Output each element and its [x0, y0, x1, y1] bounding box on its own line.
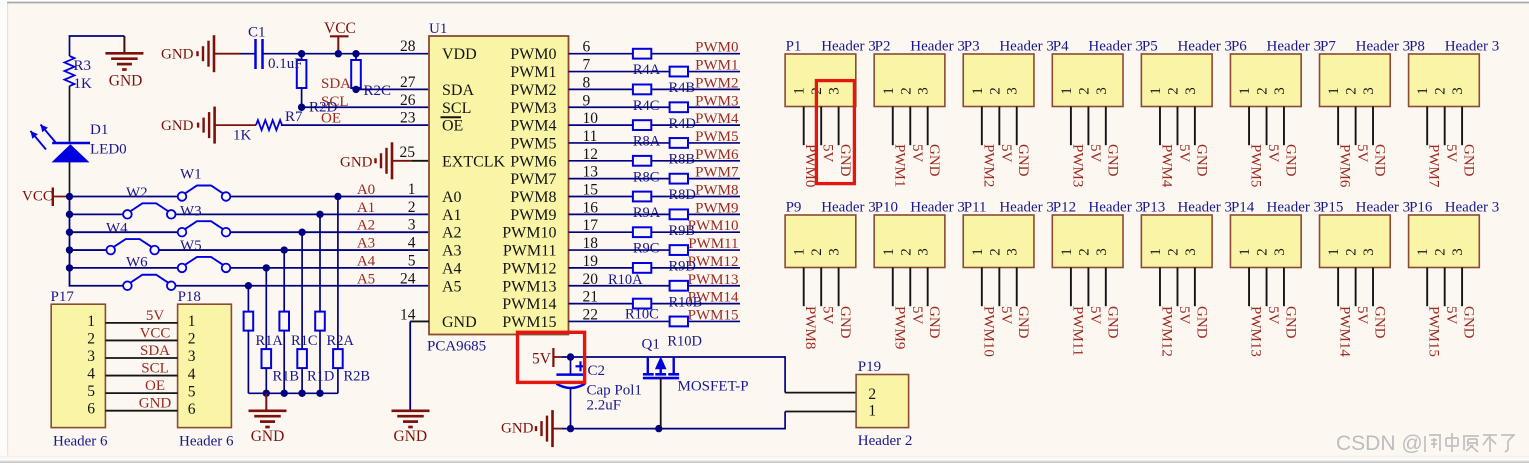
- svg-text:P5: P5: [1142, 39, 1158, 55]
- svg-text:PWM2: PWM2: [695, 75, 738, 91]
- svg-text:W4: W4: [106, 221, 128, 237]
- svg-text:2: 2: [188, 331, 196, 348]
- svg-text:5V: 5V: [909, 144, 925, 163]
- svg-text:21: 21: [583, 289, 599, 306]
- svg-text:Header 2: Header 2: [858, 433, 913, 449]
- svg-text:Header 3: Header 3: [821, 39, 876, 55]
- svg-text:P12: P12: [1053, 200, 1076, 216]
- svg-text:6: 6: [188, 401, 196, 418]
- svg-text:PWM7: PWM7: [1426, 144, 1442, 188]
- svg-text:W3: W3: [180, 204, 202, 220]
- svg-text:R3: R3: [74, 58, 92, 74]
- svg-text:PWM9: PWM9: [510, 207, 556, 224]
- svg-text:5V: 5V: [146, 308, 165, 324]
- svg-text:PWM14: PWM14: [688, 290, 739, 306]
- svg-text:12: 12: [583, 146, 599, 163]
- svg-text:VCC: VCC: [324, 20, 356, 37]
- svg-text:VDD: VDD: [442, 46, 477, 63]
- svg-text:PWM6: PWM6: [510, 153, 556, 170]
- svg-text:3: 3: [916, 87, 932, 95]
- svg-text:2: 2: [1255, 87, 1271, 95]
- svg-text:GND: GND: [340, 155, 373, 171]
- svg-text:5V: 5V: [1354, 306, 1370, 325]
- svg-text:2: 2: [1344, 87, 1360, 95]
- svg-text:Header 3: Header 3: [1088, 200, 1143, 216]
- svg-text:3: 3: [1094, 87, 1110, 95]
- svg-text:PWM14: PWM14: [502, 296, 556, 313]
- svg-text:7: 7: [583, 57, 591, 74]
- svg-text:3: 3: [408, 217, 416, 234]
- svg-text:A3: A3: [357, 236, 375, 252]
- svg-text:PWM1: PWM1: [695, 58, 738, 74]
- svg-text:Header 6: Header 6: [53, 434, 108, 450]
- svg-text:PWM13: PWM13: [502, 278, 556, 295]
- svg-text:R10D: R10D: [667, 334, 702, 350]
- svg-text:26: 26: [400, 92, 416, 109]
- svg-text:PWM4: PWM4: [695, 111, 739, 127]
- svg-text:5V: 5V: [820, 144, 836, 163]
- svg-text:14: 14: [400, 306, 416, 323]
- svg-text:5V: 5V: [1087, 144, 1103, 163]
- svg-text:PWM1: PWM1: [891, 144, 907, 187]
- svg-text:1: 1: [970, 248, 986, 256]
- svg-text:PWM7: PWM7: [695, 165, 739, 181]
- svg-text:3: 3: [1361, 248, 1377, 256]
- svg-text:2: 2: [1433, 87, 1449, 95]
- svg-text:P9: P9: [786, 200, 802, 216]
- svg-text:1: 1: [1415, 87, 1431, 95]
- svg-text:3: 3: [1183, 248, 1199, 256]
- svg-text:5V: 5V: [1265, 144, 1281, 163]
- svg-text:3: 3: [1450, 248, 1466, 256]
- svg-text:PWM14: PWM14: [1337, 306, 1353, 357]
- svg-text:10: 10: [583, 110, 599, 127]
- svg-text:11: 11: [583, 128, 598, 145]
- svg-text:EXTCLK: EXTCLK: [442, 153, 506, 170]
- svg-text:R8C: R8C: [633, 169, 660, 185]
- svg-text:PWM11: PWM11: [1069, 306, 1085, 356]
- svg-text:1: 1: [408, 181, 416, 198]
- svg-text:A2: A2: [442, 225, 462, 242]
- svg-text:D1: D1: [90, 122, 108, 138]
- svg-text:P3: P3: [964, 39, 980, 55]
- svg-text:Header 3: Header 3: [910, 39, 965, 55]
- svg-text:5V: 5V: [1443, 306, 1459, 325]
- svg-text:2: 2: [809, 248, 825, 256]
- svg-text:GND: GND: [442, 314, 477, 331]
- svg-text:GND: GND: [1015, 144, 1031, 177]
- svg-text:5V: 5V: [1354, 144, 1370, 163]
- svg-text:1K: 1K: [74, 76, 93, 92]
- svg-text:GND: GND: [837, 306, 853, 339]
- svg-text:SCL: SCL: [321, 94, 349, 110]
- svg-text:6: 6: [87, 401, 95, 418]
- svg-text:3: 3: [1272, 87, 1288, 95]
- svg-text:1: 1: [970, 87, 986, 95]
- svg-text:VCC: VCC: [22, 189, 53, 205]
- svg-text:PWM15: PWM15: [1426, 306, 1442, 357]
- svg-text:1: 1: [792, 248, 808, 256]
- svg-text:Header 3: Header 3: [1356, 39, 1411, 55]
- svg-text:P7: P7: [1320, 39, 1336, 55]
- svg-text:25: 25: [400, 144, 416, 161]
- svg-text:R1C: R1C: [291, 333, 318, 349]
- svg-text:PWM13: PWM13: [1248, 306, 1264, 357]
- svg-text:P6: P6: [1231, 39, 1247, 55]
- svg-text:GND: GND: [1372, 306, 1388, 339]
- svg-text:1: 1: [1059, 248, 1075, 256]
- svg-text:GND: GND: [1193, 306, 1209, 339]
- svg-text:28: 28: [400, 38, 416, 55]
- svg-text:OE: OE: [442, 118, 463, 135]
- svg-text:Header 3: Header 3: [1177, 200, 1232, 216]
- svg-text:PWM8: PWM8: [510, 189, 556, 206]
- svg-text:PWM5: PWM5: [1248, 144, 1264, 187]
- svg-text:2: 2: [87, 330, 95, 347]
- svg-text:1: 1: [1237, 87, 1253, 95]
- svg-text:SDA: SDA: [140, 343, 170, 359]
- svg-text:1: 1: [868, 403, 876, 420]
- svg-text:5V: 5V: [909, 306, 925, 325]
- svg-text:PWM2: PWM2: [510, 82, 556, 99]
- svg-text:15: 15: [583, 182, 599, 199]
- svg-text:R9C: R9C: [633, 241, 660, 257]
- svg-text:W1: W1: [180, 167, 202, 183]
- svg-text:R9A: R9A: [633, 205, 661, 221]
- svg-text:GND: GND: [109, 72, 143, 89]
- svg-text:PWM11: PWM11: [503, 243, 557, 260]
- svg-text:Header 3: Header 3: [1267, 200, 1322, 216]
- svg-text:PWM9: PWM9: [891, 306, 907, 349]
- svg-text:P19: P19: [858, 359, 881, 375]
- svg-text:4: 4: [408, 235, 416, 252]
- svg-text:W2: W2: [126, 185, 148, 201]
- svg-text:C2: C2: [588, 363, 606, 379]
- svg-text:Header 3: Header 3: [910, 200, 965, 216]
- svg-text:GND: GND: [1104, 144, 1120, 177]
- svg-text:2: 2: [898, 87, 914, 95]
- svg-text:PWM4: PWM4: [510, 118, 556, 135]
- svg-text:5: 5: [87, 383, 95, 400]
- svg-text:R4B: R4B: [669, 80, 696, 96]
- svg-text:P13: P13: [1142, 200, 1165, 216]
- svg-text:PWM10: PWM10: [688, 218, 739, 234]
- svg-text:LED0: LED0: [90, 142, 127, 158]
- svg-text:2: 2: [987, 87, 1003, 95]
- svg-text:Cap Pol1: Cap Pol1: [587, 383, 642, 399]
- svg-text:19: 19: [583, 253, 599, 270]
- svg-text:3: 3: [916, 248, 932, 256]
- svg-text:23: 23: [400, 110, 416, 127]
- svg-text:6: 6: [583, 39, 591, 56]
- svg-text:P14: P14: [1231, 200, 1255, 216]
- svg-text:PWM10: PWM10: [502, 225, 556, 242]
- svg-text:GND: GND: [501, 420, 534, 436]
- svg-text:3: 3: [827, 248, 843, 256]
- svg-text:R2A: R2A: [327, 333, 355, 349]
- svg-text:R1D: R1D: [307, 369, 334, 385]
- svg-text:PWM4: PWM4: [1158, 144, 1174, 188]
- svg-text:R2B: R2B: [344, 369, 371, 385]
- svg-text:GND: GND: [926, 306, 942, 339]
- svg-text:3: 3: [87, 348, 95, 365]
- svg-text:SCL: SCL: [141, 361, 169, 377]
- svg-text:P11: P11: [964, 200, 987, 216]
- svg-text:24: 24: [400, 270, 416, 287]
- svg-text:R7: R7: [285, 109, 303, 125]
- svg-text:SDA: SDA: [442, 82, 474, 99]
- svg-text:3: 3: [1450, 87, 1466, 95]
- svg-text:2: 2: [1165, 248, 1181, 256]
- svg-text:PCA9685: PCA9685: [427, 339, 486, 355]
- svg-text:2: 2: [408, 199, 416, 216]
- svg-text:PWM12: PWM12: [1158, 306, 1174, 357]
- svg-text:PWM9: PWM9: [695, 200, 738, 216]
- svg-text:Header 3: Header 3: [1177, 39, 1232, 55]
- svg-text:3: 3: [827, 87, 843, 95]
- svg-text:W5: W5: [180, 238, 202, 254]
- svg-text:Header 3: Header 3: [999, 200, 1054, 216]
- svg-text:U1: U1: [429, 21, 447, 37]
- svg-text:Header 3: Header 3: [1088, 39, 1143, 55]
- svg-text:PWM11: PWM11: [688, 236, 738, 252]
- svg-text:5V: 5V: [998, 144, 1014, 163]
- svg-text:Header 3: Header 3: [821, 200, 876, 216]
- svg-text:PWM5: PWM5: [695, 129, 738, 145]
- svg-text:1: 1: [1148, 87, 1164, 95]
- svg-text:Header 3: Header 3: [1445, 39, 1500, 55]
- svg-text:Header 3: Header 3: [1356, 200, 1411, 216]
- svg-text:A5: A5: [357, 271, 375, 287]
- svg-text:5V: 5V: [998, 306, 1014, 325]
- svg-text:PWM3: PWM3: [695, 93, 738, 109]
- svg-text:2: 2: [1344, 248, 1360, 256]
- svg-text:SDA: SDA: [321, 76, 351, 92]
- svg-text:W6: W6: [126, 255, 148, 271]
- svg-text:GND: GND: [1461, 306, 1477, 339]
- svg-text:1: 1: [1237, 248, 1253, 256]
- svg-text:1: 1: [1148, 248, 1164, 256]
- svg-text:3: 3: [1094, 248, 1110, 256]
- svg-text:PWM10: PWM10: [980, 306, 996, 357]
- svg-text:9: 9: [583, 92, 591, 109]
- svg-text:16: 16: [583, 199, 599, 216]
- svg-text:8: 8: [583, 74, 591, 91]
- svg-text:GND: GND: [1104, 306, 1120, 339]
- svg-text:P18: P18: [178, 289, 201, 305]
- svg-text:P15: P15: [1320, 200, 1343, 216]
- svg-text:5V: 5V: [1176, 144, 1192, 163]
- svg-text:PWM7: PWM7: [510, 171, 556, 188]
- svg-text:5V: 5V: [1443, 144, 1459, 163]
- svg-text:2: 2: [898, 248, 914, 256]
- svg-text:1: 1: [1326, 87, 1342, 95]
- svg-text:22: 22: [583, 306, 599, 323]
- svg-text:3: 3: [1005, 87, 1021, 95]
- svg-text:3: 3: [1183, 87, 1199, 95]
- svg-text:P8: P8: [1409, 39, 1425, 55]
- svg-text:0.1uF: 0.1uF: [268, 56, 303, 72]
- svg-text:PWM12: PWM12: [688, 254, 739, 270]
- svg-text:A0: A0: [357, 182, 375, 198]
- svg-text:GND: GND: [1282, 306, 1298, 339]
- svg-text:R4A: R4A: [633, 62, 661, 78]
- svg-text:P17: P17: [51, 289, 75, 305]
- svg-text:GND: GND: [1193, 144, 1209, 177]
- svg-text:GND: GND: [251, 428, 285, 445]
- svg-text:PWM6: PWM6: [695, 147, 739, 163]
- svg-text:A2: A2: [357, 218, 375, 234]
- svg-text:PWM3: PWM3: [1069, 144, 1085, 187]
- svg-text:4: 4: [188, 366, 196, 383]
- svg-text:1: 1: [87, 313, 95, 330]
- svg-text:P16: P16: [1409, 200, 1433, 216]
- svg-text:2: 2: [1076, 248, 1092, 256]
- svg-text:GND: GND: [139, 396, 172, 412]
- svg-text:5V: 5V: [820, 306, 836, 325]
- svg-text:1: 1: [881, 248, 897, 256]
- svg-text:5V: 5V: [1087, 306, 1103, 325]
- svg-text:1K: 1K: [233, 128, 252, 144]
- svg-text:Q1: Q1: [642, 337, 660, 353]
- svg-text:OE: OE: [145, 378, 165, 394]
- svg-text:R2C: R2C: [364, 83, 392, 99]
- svg-text:R4C: R4C: [633, 98, 660, 114]
- svg-text:PWM0: PWM0: [695, 40, 738, 56]
- svg-text:P1: P1: [786, 39, 802, 55]
- svg-text:2: 2: [1076, 87, 1092, 95]
- svg-text:PWM0: PWM0: [510, 46, 556, 63]
- svg-text:A1: A1: [442, 207, 462, 224]
- svg-text:PWM8: PWM8: [695, 183, 738, 199]
- svg-text:GND: GND: [837, 144, 853, 177]
- svg-text:Header 6: Header 6: [179, 434, 234, 450]
- svg-text:Header 3: Header 3: [999, 39, 1054, 55]
- svg-text:2: 2: [868, 386, 876, 403]
- svg-text:13: 13: [583, 164, 599, 181]
- svg-text:R4D: R4D: [669, 116, 696, 132]
- svg-text:PWM12: PWM12: [502, 260, 556, 277]
- svg-text:GND: GND: [394, 428, 428, 445]
- svg-text:A5: A5: [442, 278, 462, 295]
- svg-text:A4: A4: [357, 253, 376, 269]
- svg-text:1: 1: [1415, 248, 1431, 256]
- svg-text:5: 5: [408, 252, 416, 269]
- svg-text:Header 3: Header 3: [1267, 39, 1322, 55]
- svg-text:R10C: R10C: [625, 307, 659, 323]
- svg-text:A1: A1: [357, 200, 375, 216]
- svg-text:2: 2: [987, 248, 1003, 256]
- svg-text:P2: P2: [875, 39, 891, 55]
- svg-text:A4: A4: [442, 260, 462, 277]
- svg-text:17: 17: [583, 217, 599, 234]
- svg-text:GND: GND: [161, 47, 194, 63]
- svg-text:C1: C1: [248, 25, 266, 41]
- svg-text:Header 3: Header 3: [1445, 200, 1500, 216]
- svg-text:3: 3: [188, 348, 196, 365]
- svg-text:1: 1: [881, 87, 897, 95]
- svg-text:PWM3: PWM3: [510, 100, 556, 117]
- svg-text:R1A: R1A: [256, 333, 284, 349]
- svg-text:2: 2: [1433, 248, 1449, 256]
- svg-text:PWM8: PWM8: [802, 306, 818, 349]
- svg-text:OE: OE: [321, 111, 341, 127]
- svg-text:R8A: R8A: [633, 134, 661, 150]
- svg-text:5: 5: [188, 383, 196, 400]
- svg-text:A0: A0: [442, 189, 462, 206]
- svg-text:3: 3: [1272, 248, 1288, 256]
- svg-text:GND: GND: [926, 144, 942, 177]
- svg-text:PWM15: PWM15: [502, 314, 556, 331]
- svg-text:5V: 5V: [532, 351, 552, 368]
- svg-text:18: 18: [583, 235, 599, 252]
- svg-text:GND: GND: [1372, 144, 1388, 177]
- svg-text:PWM13: PWM13: [688, 272, 739, 288]
- svg-text:20: 20: [583, 271, 599, 288]
- svg-text:CSDN @: CSDN @: [1336, 432, 1423, 455]
- svg-text:5V: 5V: [1176, 306, 1192, 325]
- svg-text:GND: GND: [1282, 144, 1298, 177]
- svg-text:27: 27: [400, 74, 416, 91]
- svg-text:1: 1: [188, 313, 196, 330]
- svg-text:2: 2: [1255, 248, 1271, 256]
- svg-text:GND: GND: [161, 118, 194, 134]
- svg-text:P4: P4: [1053, 39, 1069, 55]
- svg-text:A3: A3: [442, 243, 462, 260]
- svg-text:SCL: SCL: [442, 100, 471, 117]
- svg-text:2.2uF: 2.2uF: [587, 398, 622, 414]
- svg-text:3: 3: [1005, 248, 1021, 256]
- svg-text:R8D: R8D: [669, 187, 696, 203]
- svg-text:PWM2: PWM2: [980, 144, 996, 187]
- svg-text:3: 3: [1361, 87, 1377, 95]
- svg-text:PWM15: PWM15: [688, 307, 739, 323]
- svg-text:VCC: VCC: [140, 325, 171, 341]
- svg-text:PWM1: PWM1: [510, 64, 556, 81]
- svg-text:GND: GND: [1015, 306, 1031, 339]
- svg-text:MOSFET-P: MOSFET-P: [678, 379, 749, 395]
- svg-text:PWM6: PWM6: [1337, 144, 1353, 188]
- svg-text:R1B: R1B: [273, 369, 300, 385]
- svg-text:PWM5: PWM5: [510, 135, 556, 152]
- svg-text:GND: GND: [1461, 144, 1477, 177]
- svg-text:1: 1: [792, 87, 808, 95]
- svg-text:4: 4: [87, 366, 95, 383]
- svg-text:5V: 5V: [1265, 306, 1281, 325]
- svg-text:2: 2: [1165, 87, 1181, 95]
- svg-text:1: 1: [1059, 87, 1075, 95]
- svg-text:R8B: R8B: [669, 151, 696, 167]
- svg-text:P10: P10: [875, 200, 898, 216]
- svg-text:1: 1: [1326, 248, 1342, 256]
